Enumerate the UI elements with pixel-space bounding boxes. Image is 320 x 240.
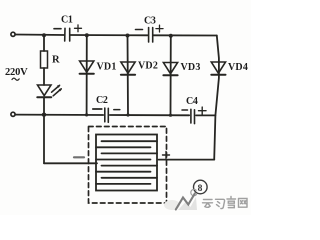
diode VD2 <box>121 36 135 116</box>
junction dot VD1 bottom <box>85 113 88 116</box>
LED indicator lamp <box>37 85 62 98</box>
svg-text:220V: 220V <box>5 67 28 78</box>
resistor R <box>41 51 48 68</box>
terminal: bottom input (220V) <box>11 112 15 116</box>
wire: top rail middle segment <box>70 34 148 36</box>
junction dot at VD3 top <box>169 34 173 38</box>
svg-text:VD4: VD4 <box>228 62 248 73</box>
svg-text:C2: C2 <box>96 95 108 106</box>
svg-text:C3: C3 <box>144 16 156 27</box>
junction dot VD3 bottom <box>169 114 172 117</box>
capacitor C3 <box>136 25 164 42</box>
watermark logo <box>164 189 197 210</box>
junction dot at LED / bottom rail <box>42 113 46 117</box>
wire: R to LED <box>43 68 45 85</box>
wire: LED to bottom rail and down to plate feed <box>43 97 45 163</box>
watermark text yun xi guan wang <box>203 197 248 209</box>
svg-text:R: R <box>52 55 60 66</box>
wire: lower-left horizontal feed to plate box <box>44 162 97 164</box>
wire: right edge vertical (top corner to plate feed) <box>214 36 219 160</box>
wire: bottom rail middle segment <box>110 114 189 116</box>
wire: lower-right horizontal feed to plate box <box>159 159 215 161</box>
wire: top rail left segment <box>15 34 64 37</box>
diode VD1 <box>80 35 94 115</box>
figure number circled 8 <box>194 180 208 194</box>
label plus at plate right feed <box>163 152 170 159</box>
svg-text:8: 8 <box>198 184 203 194</box>
ionizer plate assembly (electrode grid) <box>96 135 157 191</box>
diode VD3 <box>163 36 177 116</box>
svg-text:C4: C4 <box>186 96 198 107</box>
svg-text:C1: C1 <box>61 15 73 26</box>
svg-text:VD3: VD3 <box>181 62 201 73</box>
label 220V <box>5 67 28 80</box>
wire: R branch top <box>43 35 45 51</box>
junction dot at R branch top <box>42 33 46 37</box>
label minus at plate left feed <box>74 156 84 158</box>
dashed enclosure of ionizer plate assembly <box>89 127 167 204</box>
capacitor C2 <box>93 108 120 122</box>
svg-text:VD1: VD1 <box>97 62 117 73</box>
capacitor C4 <box>182 107 206 124</box>
junction dot VD2 bottom <box>126 113 129 116</box>
wire: bottom rail right segment <box>196 114 215 116</box>
wire: bottom rail left segment <box>15 114 103 116</box>
junction dot at VD1 top <box>85 33 89 37</box>
diode VD4 <box>211 62 225 75</box>
junction dot at VD2 top <box>126 34 130 38</box>
svg-text:VD2: VD2 <box>138 61 158 72</box>
wire: top rail right segment <box>154 34 217 36</box>
capacitor C1 <box>54 25 82 41</box>
terminal: top input (220V) <box>11 32 15 36</box>
